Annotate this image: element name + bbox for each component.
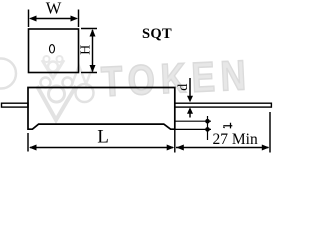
svg-text:L: L bbox=[97, 126, 109, 147]
svg-text:d: d bbox=[176, 84, 191, 91]
svg-text:27 Min: 27 Min bbox=[213, 131, 258, 148]
svg-text:W: W bbox=[46, 0, 62, 18]
svg-text:H: H bbox=[78, 45, 93, 55]
svg-text:TOKEN: TOKEN bbox=[100, 52, 252, 106]
svg-text:SQT: SQT bbox=[142, 26, 172, 42]
